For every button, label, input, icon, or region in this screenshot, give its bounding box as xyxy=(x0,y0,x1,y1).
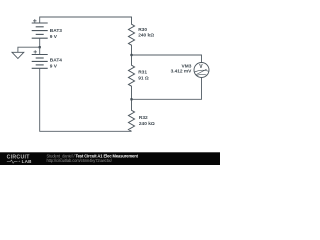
resistor R31 xyxy=(128,55,134,99)
wire node to voltmeter top xyxy=(132,55,202,63)
svg-text:BAT4: BAT4 xyxy=(50,58,63,64)
svg-text:R31: R31 xyxy=(138,70,147,76)
logo arrow xyxy=(18,161,20,162)
svg-text:BAT3: BAT3 xyxy=(50,28,63,34)
resistor R30 xyxy=(128,17,134,55)
svg-text:LAB: LAB xyxy=(22,159,33,164)
svg-text:9 V: 9 V xyxy=(50,64,58,70)
resistor R32 xyxy=(128,99,134,131)
node R31/R32 xyxy=(130,98,132,100)
plus sign of BAT4 xyxy=(34,50,37,53)
node R30/R31 xyxy=(130,54,132,56)
wire BAT3- to junction xyxy=(39,38,41,47)
battery BAT3 xyxy=(32,23,48,38)
svg-text:240 kΩ: 240 kΩ xyxy=(138,33,154,39)
wire node to voltmeter bottom xyxy=(132,78,202,100)
svg-text:R30: R30 xyxy=(138,27,147,33)
svg-text:R32: R32 xyxy=(139,115,148,121)
voltmeter VM3 xyxy=(194,63,209,78)
svg-text:3.412 mV: 3.412 mV xyxy=(171,68,193,74)
wire junction to ground xyxy=(18,47,40,52)
wire junction BAT3- to BAT4+ xyxy=(39,47,41,54)
svg-text:http://circuitlab.com/c6nn4ky7: http://circuitlab.com/c6nn4ky72uwc5x/ xyxy=(47,158,113,163)
wire top: battery+ to R30 top xyxy=(40,17,132,23)
battery BAT4 xyxy=(32,55,48,69)
logo waveform xyxy=(7,160,18,163)
wire bottom: BAT4- down and right to R32 bottom xyxy=(40,68,132,131)
ground xyxy=(12,52,24,58)
svg-text:240 kΩ: 240 kΩ xyxy=(139,121,155,127)
node junction battery midpoint xyxy=(39,46,41,48)
plus sign of BAT3 xyxy=(33,19,36,22)
canvas background xyxy=(0,0,220,165)
svg-text:9 V: 9 V xyxy=(50,34,58,40)
svg-text:91 Ω: 91 Ω xyxy=(138,75,149,81)
footer bar xyxy=(0,152,220,165)
